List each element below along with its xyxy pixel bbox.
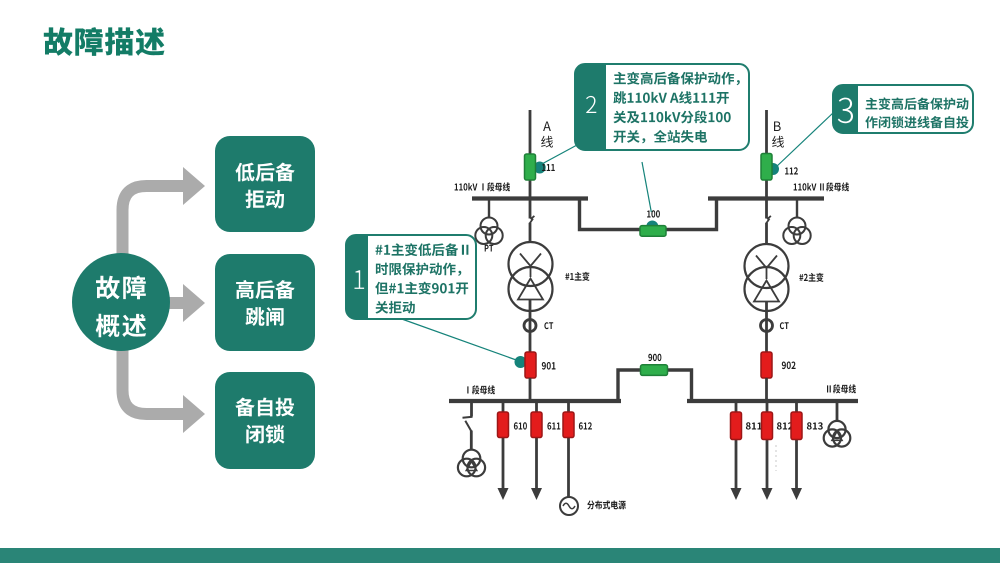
title 故障描述 [44, 27, 165, 56]
label #2主变 [799, 273, 823, 282]
breaker 100 (closed) [640, 226, 666, 237]
breaker 112 (closed) [761, 154, 772, 181]
arrow to box3 [123, 348, 206, 433]
label 611 [547, 422, 560, 429]
PT left symbol [475, 218, 502, 245]
callout 1 (#1主变低后备...) [346, 235, 476, 319]
label 110kV II段母线 [794, 182, 849, 191]
bus 110kV I [472, 196, 588, 200]
label 902 [782, 362, 796, 370]
node dot at 901 [515, 356, 527, 368]
grounding transformer right [824, 421, 851, 447]
arrow to box2 [168, 284, 205, 322]
node dot at 111 [534, 162, 546, 174]
grounding transformer left [458, 450, 485, 477]
box 低后备拒动 [215, 136, 315, 232]
breaker 900 (closed) [641, 365, 668, 376]
bus 110kV II [708, 196, 824, 200]
feeder 611 [531, 403, 542, 500]
CT left [524, 320, 536, 332]
label CT right [780, 322, 789, 329]
label B线 [772, 122, 784, 148]
label 811 [746, 422, 762, 429]
box 备自投闭锁 [215, 372, 315, 469]
box 高后备跳闸 [215, 254, 315, 351]
wire bus-tie 110kV [580, 199, 717, 230]
label #1主变 [565, 272, 589, 281]
feeder 612 to DG [563, 403, 574, 497]
feeder 812 [762, 403, 773, 500]
dotted line below 812 [775, 445, 777, 471]
label CT left [544, 322, 553, 329]
label 901 [542, 362, 556, 370]
wire 902 to bus II [765, 378, 768, 401]
circle 故障概述 [72, 253, 170, 351]
transformer #2主变 [745, 244, 789, 311]
wire #2主变 to 902 [765, 301, 768, 352]
breaker 901 (closed/refused) [525, 352, 536, 378]
label 610 [514, 422, 527, 429]
disconnect break #1 [530, 216, 535, 224]
wire 901 to bus I [529, 378, 532, 401]
label I段母线 [467, 385, 495, 394]
node dot at 112 [767, 163, 779, 175]
label A线 [541, 122, 553, 148]
wire bus-tie 900 [618, 370, 692, 401]
PT left stem [488, 200, 490, 218]
wire #1主变 to 901 [529, 299, 532, 352]
arrow to box1 [123, 167, 206, 258]
label 900 [648, 354, 661, 361]
wire bus to #1主变 [529, 198, 532, 243]
label 112 [785, 167, 798, 174]
transformer #1主变 [509, 242, 553, 311]
feeder 811 [731, 403, 742, 500]
bus I段母线 [449, 399, 621, 403]
label 813 [807, 422, 823, 429]
wire B-line incoming [765, 110, 768, 198]
label II段母线 [827, 384, 856, 393]
breaker 111 (closed) [525, 154, 536, 180]
bus II段母线 [687, 399, 858, 403]
label 812 [777, 422, 793, 429]
label 612 [579, 422, 592, 429]
callout 2 (主变高后备保护动作...) [575, 64, 749, 150]
label 100 [647, 210, 660, 217]
feeder 610 [498, 403, 509, 500]
label 110kV I段母线 [455, 182, 510, 191]
breaker 902 (closed) [761, 352, 772, 378]
leader line callout1 to 901 [399, 318, 519, 361]
DG source circle [560, 497, 578, 515]
feeder 813 [791, 403, 802, 500]
wire A-line incoming [529, 110, 532, 198]
disconnect break #2 [766, 216, 771, 224]
callout 3 (主变高后备保护动作闭锁...) [833, 85, 973, 133]
leader line callout2 to 100 [642, 162, 651, 212]
PT right symbol [783, 218, 810, 245]
wire grounding feeder [470, 403, 473, 450]
PT right stem [796, 200, 798, 218]
leader line callout2 to 111 [540, 145, 577, 165]
grounding transformer right stem [836, 403, 839, 422]
switch break grounding [463, 417, 473, 431]
node dot at 100 [646, 221, 658, 233]
label PT [485, 245, 494, 252]
footer bar [0, 548, 1000, 563]
label 分布式电源 [587, 500, 626, 509]
CT right [761, 320, 773, 332]
wire bus to #2主变 [765, 198, 768, 243]
leader line callout3 to 112 [775, 112, 834, 168]
label 111 [542, 164, 555, 171]
